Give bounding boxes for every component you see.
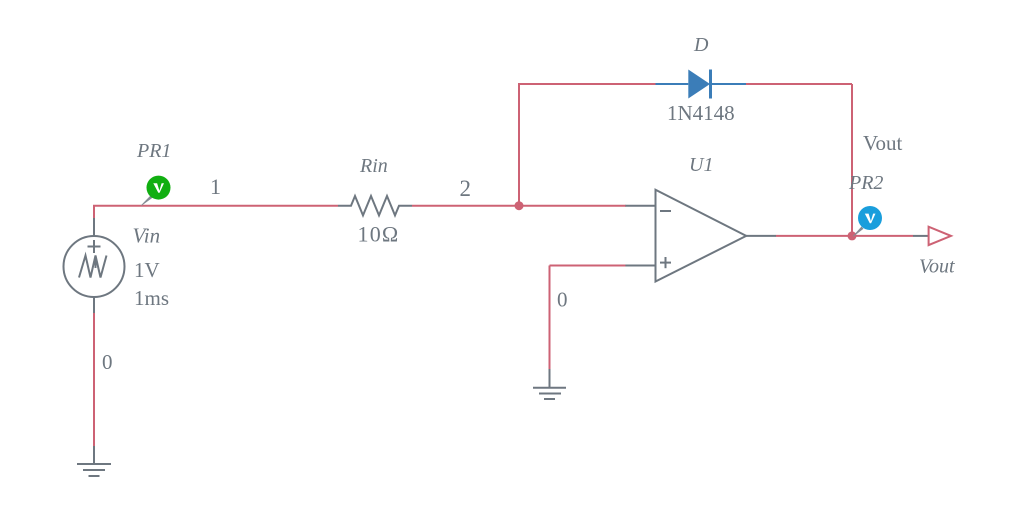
ground right: [533, 369, 566, 399]
svg-text:1ms: 1ms: [134, 286, 169, 310]
ground left: [77, 446, 111, 476]
svg-text:PR2: PR2: [848, 172, 883, 194]
wire: feedback vertical down to output: [851, 84, 853, 236]
svg-text:Rin: Rin: [359, 155, 388, 177]
svg-text:10Ω: 10Ω: [358, 221, 400, 246]
svg-text:0: 0: [102, 350, 113, 374]
output connector Vout arrow: [913, 227, 951, 245]
svg-text:1V: 1V: [134, 258, 160, 282]
svg-text:D: D: [693, 34, 709, 56]
wire: source top to node 1 corner (vertical): [93, 206, 95, 220]
wire: feedback vertical from node 2 junction up: [518, 84, 520, 206]
wire: op-amp output to Vout connector: [776, 235, 913, 237]
svg-text:1N4148: 1N4148: [667, 101, 735, 125]
probe PR1: [141, 176, 171, 206]
resistor Rin: [338, 196, 412, 215]
svg-text:Vout: Vout: [919, 256, 955, 278]
svg-text:1: 1: [210, 174, 221, 199]
svg-text:U1: U1: [689, 154, 713, 176]
diode D: [656, 70, 747, 99]
wire: non-inverting input horizontal: [550, 265, 627, 267]
wire: main horizontal net 1 from source to resistor: [93, 205, 338, 207]
svg-text:2: 2: [460, 176, 472, 201]
svg-text:Vin: Vin: [133, 224, 161, 248]
wire: non-inverting input vertical to ground: [549, 266, 551, 372]
wire: feedback horizontal right of diode: [746, 83, 852, 85]
wire: net 2 from resistor to op-amp: [412, 205, 626, 207]
wire: source bottom to ground: [93, 297, 95, 448]
junction node 2 dot: [515, 201, 524, 210]
voltage source Vin: [64, 218, 125, 313]
svg-text:0: 0: [557, 288, 568, 312]
svg-text:Vout: Vout: [863, 131, 902, 155]
svg-text:PR1: PR1: [136, 140, 171, 162]
op-amp U1: [625, 190, 776, 282]
junction Vout dot: [848, 231, 857, 240]
wire: feedback horizontal left of diode: [518, 83, 656, 85]
probe PR2: [853, 206, 882, 237]
